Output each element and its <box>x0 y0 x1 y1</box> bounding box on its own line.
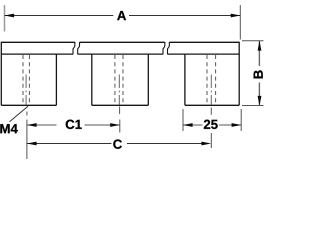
dimension C1 / C common extension line <box>26 112 28 160</box>
dimension B line <box>258 41 260 106</box>
boss 2 centerline <box>118 75 120 105</box>
dimension C1 arrow right <box>110 123 120 127</box>
break symbol 2 <box>163 42 169 54</box>
boss 3 centerline <box>210 75 212 105</box>
dimension B label <box>254 70 263 78</box>
boss 2 centerline extension <box>119 107 121 133</box>
dimension C label <box>113 139 122 148</box>
dimension A arrow left <box>4 14 14 18</box>
boss 1 centerline <box>25 75 27 105</box>
dimension B extension line bottom <box>242 105 264 107</box>
boss 3 outline <box>185 54 239 105</box>
M4 leader line <box>10 106 29 122</box>
dimension A label <box>117 11 126 20</box>
dimension B arrow up <box>258 41 262 51</box>
dimension 25 extension line right <box>240 109 242 131</box>
dimension 25 arrow right <box>232 123 242 127</box>
boss 1 outline <box>1 54 56 105</box>
dimension C1 line <box>27 124 120 126</box>
dimension C arrow right <box>201 142 211 146</box>
dimension C1 arrow left <box>27 123 37 127</box>
rail bottom edge <box>1 53 239 55</box>
dimension B arrow down <box>258 96 262 106</box>
dimension A extension line left <box>4 5 6 32</box>
boss 3 centerline extension <box>210 108 212 149</box>
dimension 25 line <box>183 124 241 126</box>
rail right end edge <box>238 42 240 106</box>
dimension A line <box>5 15 241 17</box>
dimension 25 label <box>204 120 218 129</box>
boss 2 thread dashed lines <box>115 55 123 105</box>
dimension C1 label <box>66 120 82 129</box>
dimension A extension line right <box>239 5 241 40</box>
boss 2 outline <box>92 54 149 105</box>
rail top edge <box>1 41 239 43</box>
dimension 25 extension line left <box>182 109 184 131</box>
boss 1 thread dashed lines <box>23 55 29 105</box>
dimension C arrow left <box>27 142 37 146</box>
rail left end edge <box>0 42 2 106</box>
boss 3 thread dashed lines <box>207 55 216 105</box>
dimension 25 arrow left <box>183 123 193 127</box>
dimension B extension line top <box>242 40 264 42</box>
dimension A arrow right <box>231 14 241 18</box>
break symbol 1 <box>73 42 80 54</box>
dimension C line <box>27 143 202 145</box>
M4 label <box>0 124 17 133</box>
